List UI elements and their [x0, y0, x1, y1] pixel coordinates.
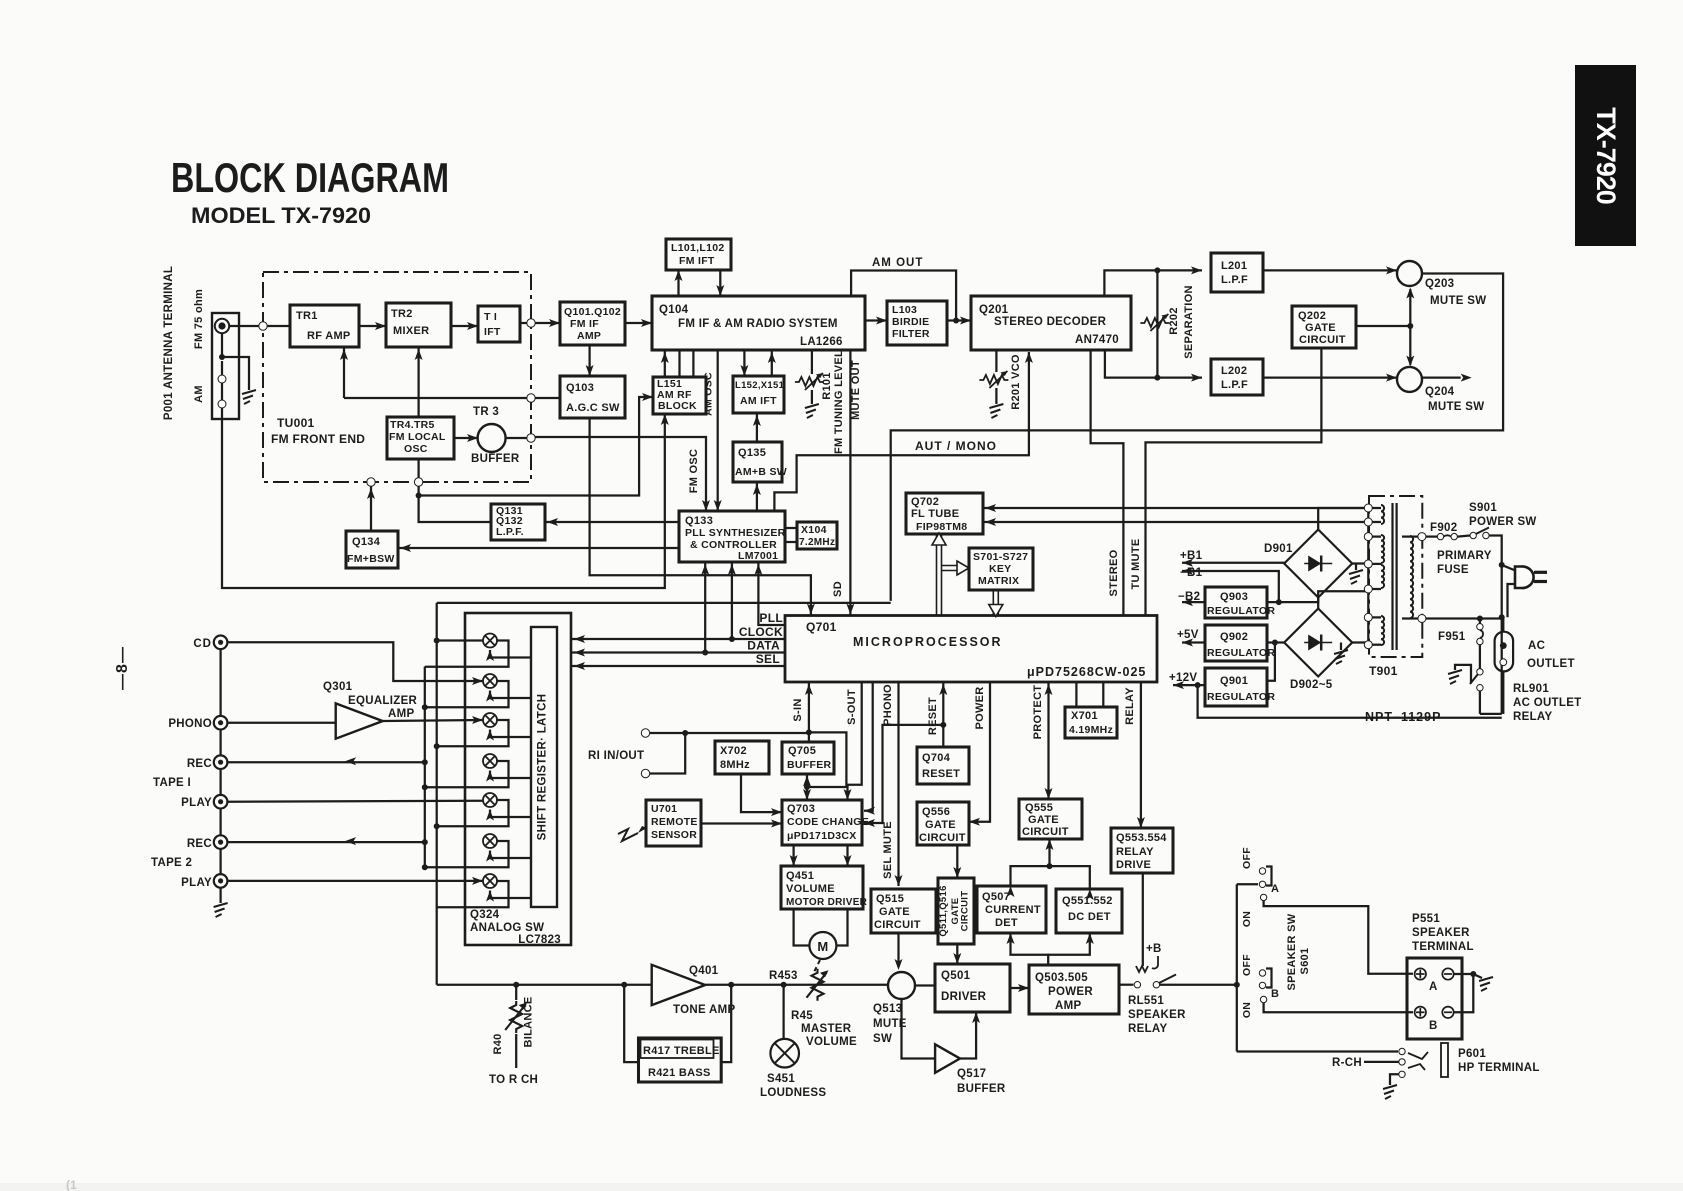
- wire RELAY to Q553: [1140, 682, 1142, 828]
- svg-text:7.2MHz: 7.2MHz: [799, 537, 835, 548]
- svg-text:RL901: RL901: [1513, 683, 1549, 695]
- pot R45 master volume: [807, 969, 829, 1001]
- svg-text:PHONO: PHONO: [882, 684, 894, 726]
- wire Q202 to mute switches: [1356, 325, 1410, 327]
- wire Q901 input from rail: [1267, 643, 1275, 681]
- relay contact RL901: [1477, 669, 1483, 675]
- ac outlet symbol: [1495, 632, 1514, 672]
- svg-text:L202: L202: [1221, 365, 1247, 377]
- svg-text:Q301: Q301: [323, 681, 353, 693]
- wire S-IN loop to Q703: [807, 732, 846, 787]
- loudness switch S451: [782, 985, 784, 1039]
- wire X702 to Q703: [741, 774, 782, 812]
- AM antenna contacts: [218, 375, 226, 383]
- svg-text:P551: P551: [1412, 913, 1440, 925]
- ground under jacks: [214, 903, 228, 917]
- hollow arrow key matrix to micro: [993, 590, 998, 616]
- svg-text:Q202: Q202: [1298, 310, 1326, 322]
- transformer T901 enclosure: [1369, 496, 1422, 657]
- svg-text:MICROPROCESSOR: MICROPROCESSOR: [853, 635, 1003, 649]
- mute switch circle Q204: [1397, 367, 1422, 392]
- svg-text:CIRCUIT: CIRCUIT: [874, 919, 921, 931]
- wire D902 right to tap: [1352, 641, 1368, 643]
- motor M circle: [809, 932, 836, 959]
- hp jack symbol: [1408, 1052, 1428, 1059]
- svg-text:TERMINAL: TERMINAL: [1412, 941, 1474, 953]
- svg-text:M: M: [817, 939, 828, 954]
- gate Q556 GATE CIRCUIT: [917, 802, 969, 845]
- svg-text:REGULATOR: REGULATOR: [1207, 605, 1275, 617]
- power switch S901: [1470, 532, 1476, 538]
- regulator Q901 REGULATOR: [1205, 668, 1267, 706]
- svg-text:TO R CH: TO R CH: [489, 1074, 538, 1086]
- svg-text:SEPARATION: SEPARATION: [1183, 285, 1195, 359]
- wire PLAY2 input: [227, 880, 483, 882]
- svg-text:4.19MHz: 4.19MHz: [1069, 724, 1113, 736]
- svg-text:Q503.505: Q503.505: [1035, 972, 1088, 984]
- gate Q555 GATE CIRCUIT: [1019, 799, 1082, 839]
- svg-text:MATRIX: MATRIX: [978, 575, 1019, 587]
- wire dash edge to Q101: [535, 322, 560, 324]
- wire Q703 to Q451 right stub: [846, 845, 848, 866]
- svg-text:GATE: GATE: [1305, 322, 1336, 334]
- svg-text:AMP: AMP: [1055, 1000, 1081, 1012]
- junction R453: [781, 982, 787, 988]
- svg-text:LA1266: LA1266: [800, 336, 843, 348]
- terminal A minus: [1442, 968, 1453, 979]
- ground at D901 tap: [1355, 564, 1357, 571]
- svg-text:SPEAKER SW: SPEAKER SW: [1286, 913, 1298, 990]
- svg-text:OFF: OFF: [1241, 847, 1253, 869]
- power amp Q503.505 POWER AMP: [1029, 965, 1119, 1014]
- svg-text:Q324: Q324: [470, 909, 500, 921]
- wire jack ground chain: [219, 649, 221, 716]
- ground at speaker terminal: [1479, 977, 1493, 991]
- svg-text:L201: L201: [1221, 260, 1247, 272]
- relay driver Q553.554 RELAY DRIVE: [1111, 828, 1173, 873]
- svg-text:8MHz: 8MHz: [720, 759, 750, 771]
- lpf L201 L.P.F: [1211, 253, 1263, 292]
- wire plug upper prong: [1502, 565, 1514, 570]
- svg-text:FUSE: FUSE: [1437, 564, 1469, 576]
- svg-text:CIRCUIT: CIRCUIT: [919, 832, 966, 844]
- wire L201 to Q203: [1263, 269, 1397, 271]
- svg-text:OSC: OSC: [404, 443, 428, 455]
- svg-text:S-IN: S-IN: [792, 698, 804, 721]
- svg-text:T I: T I: [484, 311, 497, 323]
- terminal B minus: [1442, 1007, 1453, 1018]
- wire DATA line: [572, 651, 785, 653]
- svg-text:OUTLET: OUTLET: [1527, 658, 1575, 670]
- fuse F902: [1437, 533, 1443, 539]
- svg-text:SEL MUTE: SEL MUTE: [882, 821, 894, 879]
- svg-text:LOUDNESS: LOUDNESS: [760, 1087, 826, 1099]
- svg-text:R-CH: R-CH: [1332, 1057, 1362, 1069]
- transformer primary winding: [1402, 535, 1410, 537]
- svg-text:RESET: RESET: [922, 768, 960, 780]
- wire Q133 to X104 stubs: [785, 527, 797, 529]
- bridge rectifier D902-5: [1284, 609, 1352, 677]
- svg-text:Q517: Q517: [957, 1068, 986, 1080]
- svg-text:FM FRONT END: FM FRONT END: [271, 432, 365, 446]
- wire bus from analog switch to rail: [437, 602, 891, 604]
- driver Q451 VOLUME MOTOR DRIVER: [781, 866, 863, 909]
- wire Q133 to Q134: [398, 547, 679, 549]
- bridge rectifier D901: [1284, 530, 1352, 598]
- junction circle on dash bottom for Q134: [367, 478, 375, 486]
- svg-text:Q133: Q133: [685, 515, 713, 527]
- svg-text:PLAY: PLAY: [181, 877, 212, 889]
- ground at antenna box: [242, 390, 256, 404]
- wire CLOCK line: [572, 638, 785, 640]
- svg-text:P601: P601: [1458, 1048, 1486, 1060]
- svg-text:RELAY: RELAY: [1124, 687, 1136, 725]
- svg-text:STEREO DECODER: STEREO DECODER: [994, 316, 1107, 328]
- svg-text:AMP: AMP: [388, 708, 414, 720]
- input jack TAPE1 PLAY: [214, 795, 228, 809]
- svg-text:R421 BASS: R421 BASS: [648, 1067, 711, 1079]
- svg-text:CD: CD: [193, 638, 212, 650]
- crystal X702 8MHz: [715, 741, 769, 774]
- amp triangle Q301 EQUALIZER AMP: [336, 703, 383, 738]
- relay contact RL551: [1134, 982, 1140, 988]
- wire osc to L151 left: [419, 397, 653, 496]
- junction R202 top: [1154, 267, 1160, 273]
- supply line to Q702 upper: [983, 507, 1368, 509]
- dc detector Q551.552 DC DET: [1056, 889, 1122, 933]
- switch Q135 AM+B SW: [733, 442, 782, 482]
- wire Q451 to motor: [794, 909, 810, 946]
- input jack CD: [214, 636, 228, 650]
- input jack PHONO: [214, 716, 228, 730]
- wire +12V to relay rail: [1198, 685, 1502, 718]
- switch row play1: [483, 793, 497, 807]
- wire detector network to Q555: [1011, 866, 1090, 889]
- wire T1 to dash edge junction: [520, 322, 531, 324]
- svg-text:DRIVER: DRIVER: [941, 991, 987, 1003]
- svg-text:+B: +B: [1146, 943, 1162, 955]
- wire Q135 to L152: [756, 413, 758, 442]
- svg-text:GATE: GATE: [879, 906, 910, 918]
- ac plug: [1515, 566, 1534, 588]
- svg-text:REGULATOR: REGULATOR: [1207, 691, 1275, 703]
- wire micro pin to Q703 right upper: [864, 682, 873, 811]
- wire power amp sense to detectors: [1011, 933, 1049, 965]
- svg-text:Q553.554: Q553.554: [1116, 832, 1167, 844]
- svg-text:CIRCUIT: CIRCUIT: [960, 891, 971, 932]
- svg-text:FM IF & AM RADIO SYSTEM: FM IF & AM RADIO SYSTEM: [678, 318, 838, 330]
- wire dash edge to Q103: [535, 397, 560, 399]
- wire PROTECT: [1047, 682, 1049, 799]
- crystal X104 7.2MHz: [797, 522, 837, 549]
- wire Q104 to L103: [865, 319, 887, 321]
- wire treble box to amp output: [721, 985, 731, 1062]
- svg-text:PLL SYNTHESIZER: PLL SYNTHESIZER: [685, 527, 786, 539]
- wire REC2 feed: [227, 841, 424, 843]
- svg-text:S-OUT: S-OUT: [846, 689, 858, 725]
- svg-text:SENSOR: SENSOR: [651, 829, 697, 841]
- svg-text:Q134: Q134: [352, 536, 381, 548]
- svg-text:SHIFT REGISTER· LATCH: SHIFT REGISTER· LATCH: [537, 694, 549, 841]
- block Q134 FM+B SW: [346, 531, 398, 568]
- svg-text:BLOCK DIAGRAM: BLOCK DIAGRAM: [171, 154, 449, 201]
- wire R202 vertical: [1156, 270, 1158, 377]
- svg-text:SPEAKER: SPEAKER: [1412, 927, 1470, 939]
- svg-text:TR 3: TR 3: [473, 406, 499, 418]
- svg-text:R40: R40: [492, 1033, 504, 1054]
- svg-text:Q511,Q516: Q511,Q516: [938, 885, 949, 936]
- svg-text:CURRENT: CURRENT: [985, 904, 1041, 916]
- svg-text:Q701: Q701: [806, 620, 837, 634]
- wire AM jack chain: [221, 361, 223, 375]
- switch row tuner: [483, 674, 497, 688]
- wire U701 to Q703: [701, 822, 782, 824]
- transistor block TR1 RF AMP: [290, 305, 359, 347]
- svg-text:AM+B SW: AM+B SW: [735, 466, 787, 478]
- wire TR2 to T1: [451, 325, 478, 327]
- svg-text:Q705: Q705: [788, 745, 816, 757]
- wire REC1 feed: [227, 761, 424, 763]
- ic Q104 FM IF and AM RADIO SYSTEM LA1266: [652, 296, 865, 350]
- svg-text:Q555: Q555: [1025, 802, 1053, 814]
- svg-text:Q901: Q901: [1220, 675, 1248, 687]
- wire F951 to relay contact: [1479, 645, 1481, 669]
- switch output hooks: [425, 641, 509, 667]
- dashed link motor to volume pot: [813, 960, 820, 974]
- wire transformer primary bottom line: [1426, 617, 1502, 619]
- reset block Q704 RESET: [917, 747, 969, 784]
- svg-text:AM OUT: AM OUT: [872, 257, 923, 269]
- wire Q553 to relay coil: [1142, 873, 1144, 966]
- regulator Q902 REGULATOR: [1205, 625, 1267, 661]
- switch row rec1: [483, 754, 497, 768]
- wire Q201 bottom to L202 line: [1105, 350, 1202, 378]
- wire speaker bus to HP terminal: [1237, 1050, 1398, 1052]
- svg-text:AN7470: AN7470: [1075, 334, 1119, 346]
- pll Q133 PLL SYNTHESIZER and CONTROLLER LM7001: [679, 511, 785, 562]
- keyboard S701-S727 KEY MATRIX: [969, 548, 1033, 590]
- shift register latch inner box: [531, 627, 557, 907]
- speaker switch B contacts: [1259, 970, 1265, 976]
- svg-text:DRIVE: DRIVE: [1116, 859, 1151, 871]
- scan edge band: [0, 1183, 1683, 1191]
- wire L202 to Q204: [1263, 376, 1397, 378]
- wire main audio bus to tone amp: [437, 984, 652, 986]
- svg-text:AUT / MONO: AUT / MONO: [915, 439, 997, 453]
- switch control stubs from latch: [490, 650, 531, 658]
- svg-text:L.P.F.: L.P.F.: [496, 526, 524, 538]
- svg-text:R453: R453: [769, 970, 798, 982]
- svg-text:VOLUME: VOLUME: [806, 1036, 857, 1048]
- svg-text:Q104: Q104: [659, 304, 689, 316]
- hp terminal contacts P601: [1399, 1048, 1405, 1054]
- svg-text:REGULATOR: REGULATOR: [1207, 647, 1275, 659]
- mute switch circle Q513: [888, 972, 915, 999]
- svg-text:A.G.C SW: A.G.C SW: [566, 402, 620, 414]
- svg-text:R202: R202: [1168, 307, 1180, 335]
- svg-text:RF AMP: RF AMP: [307, 330, 351, 342]
- antenna terminal box P001: [212, 313, 239, 419]
- wire AM antenna line to L151: [222, 408, 665, 588]
- wire PLL line: [758, 562, 785, 625]
- buffer Q705 BUFFER: [782, 742, 834, 774]
- wire +12V output: [1173, 684, 1205, 686]
- svg-text:GATE: GATE: [1028, 814, 1059, 826]
- svg-text:PRIMARY: PRIMARY: [1437, 550, 1492, 562]
- ic Q201 STEREO DECODER AN7470: [971, 296, 1131, 350]
- tone control box R417 TREBLE R421 BASS: [639, 1038, 722, 1082]
- switch row play2: [483, 874, 497, 888]
- wire terminal grounds: [1454, 973, 1474, 975]
- gate column Q511 Q516 GATE CIRCUIT: [938, 878, 974, 944]
- svg-text:Q103: Q103: [566, 382, 594, 394]
- svg-text:PHONO: PHONO: [168, 718, 212, 730]
- svg-text:S451: S451: [767, 1073, 795, 1085]
- hollow arrow branch to key matrix: [942, 566, 961, 571]
- wire Q201 top to L201 line: [1104, 270, 1202, 296]
- terminal B plus: [1415, 1007, 1426, 1018]
- svg-text:RESET: RESET: [927, 697, 939, 735]
- svg-text:SEL: SEL: [756, 652, 780, 666]
- input jack TAPE2 PLAY: [214, 874, 228, 888]
- svg-text:RELAY: RELAY: [1116, 846, 1154, 858]
- ground at RL901: [1448, 670, 1462, 684]
- svg-text:F951: F951: [1438, 631, 1466, 643]
- svg-text:CODE CHANGE: CODE CHANGE: [787, 816, 869, 828]
- svg-text:OFF: OFF: [1241, 954, 1253, 976]
- wire Q101 to Q104: [625, 322, 652, 324]
- gate Q515 GATE CIRCUIT: [871, 889, 936, 933]
- ic Q324 ANALOG SW LC7823 outer box: [465, 613, 571, 945]
- svg-text:L103: L103: [892, 304, 917, 316]
- ift L152,X151 AM IFT: [733, 376, 784, 413]
- svg-text:S701-S727: S701-S727: [973, 551, 1028, 563]
- wire PLAY1 input: [227, 801, 483, 802]
- amp triangle Q401 TONE AMP: [652, 965, 706, 1005]
- svg-text:SD: SD: [832, 581, 844, 597]
- wire plug lower prong jog: [1508, 584, 1515, 617]
- wire Q501 to power amp: [1010, 987, 1029, 989]
- svg-text:S901: S901: [1469, 502, 1497, 514]
- svg-text:GATE: GATE: [925, 819, 956, 831]
- wire -B2 regulator output: [1182, 601, 1205, 603]
- svg-text:FL TUBE: FL TUBE: [911, 508, 959, 520]
- svg-text:Q203: Q203: [1425, 278, 1454, 290]
- svg-text:TX-7920: TX-7920: [1591, 107, 1621, 204]
- display Q702 FL TUBE FIP98TM8: [906, 493, 983, 534]
- svg-text:D902~5: D902~5: [1290, 679, 1333, 691]
- transformer core: [1391, 503, 1393, 650]
- svg-text:MUTE SW: MUTE SW: [1430, 295, 1486, 307]
- svg-text:T901: T901: [1369, 664, 1398, 678]
- wire +B1 from bridge D901: [1182, 562, 1285, 564]
- svg-text:Q702: Q702: [911, 496, 939, 508]
- svg-text:Q101.Q102: Q101.Q102: [564, 306, 621, 318]
- wire FM jack to ground stub: [221, 333, 223, 357]
- wire L101 to Q104 stubs: [677, 270, 679, 296]
- svg-text:Q703: Q703: [787, 803, 815, 815]
- svg-text:RL551: RL551: [1128, 995, 1164, 1007]
- svg-text:A: A: [1429, 981, 1438, 993]
- svg-text:X702: X702: [720, 745, 747, 757]
- svg-text:R201 VCO: R201 VCO: [1010, 354, 1022, 410]
- svg-text:TAPE I: TAPE I: [153, 777, 191, 789]
- wire Q135 to Q133: [756, 482, 758, 511]
- svg-text:PROTECT: PROTECT: [1032, 685, 1044, 740]
- wire R-CH to hp: [1364, 1061, 1399, 1063]
- svg-text:FM LOCAL: FM LOCAL: [389, 431, 446, 443]
- wire to switch A: [1237, 883, 1258, 885]
- wire TR3 to dash edge: [506, 437, 531, 439]
- svg-text:D901: D901: [1264, 543, 1293, 555]
- wire +5V output: [1182, 641, 1205, 643]
- svg-text:BUFFER: BUFFER: [471, 453, 520, 465]
- pot R202 separation: [1140, 314, 1169, 331]
- wire D901 right to tap: [1352, 562, 1368, 564]
- svg-text:—8—: —8—: [114, 646, 131, 690]
- black index tab TX-7920: [1575, 65, 1636, 246]
- mute switch circle Q203: [1397, 261, 1422, 286]
- svg-text:POWER SW: POWER SW: [1469, 516, 1537, 528]
- svg-text:F902: F902: [1430, 522, 1457, 534]
- filter L103 BIRDIE FILTER: [887, 301, 947, 345]
- wire S-IN: [808, 682, 810, 742]
- wire outlet top feed: [1502, 619, 1504, 632]
- svg-text:REC: REC: [187, 838, 212, 850]
- svg-text:A: A: [1271, 883, 1279, 895]
- svg-text:BUFFER: BUFFER: [787, 759, 831, 771]
- speaker terminal box P551: [1407, 958, 1462, 1039]
- wire L103 to Q201: [947, 319, 971, 321]
- wire primary top to fuse F902: [1426, 535, 1437, 537]
- wire hp ground: [1390, 1074, 1399, 1085]
- connector RI IN/OUT: [641, 729, 649, 737]
- svg-text:BIRDIE: BIRDIE: [892, 316, 929, 328]
- svg-text:FM+BSW: FM+BSW: [347, 553, 395, 565]
- wire buffer line to FM OSC down: [535, 437, 706, 511]
- svg-text:MIXER: MIXER: [393, 325, 429, 337]
- lpf Q131 Q132 L.P.F.: [491, 504, 545, 540]
- svg-text:FM IFT: FM IFT: [679, 255, 715, 267]
- svg-text:Q135: Q135: [738, 447, 766, 459]
- wire RI to S-IN: [650, 732, 809, 734]
- svg-text:Q501: Q501: [941, 970, 971, 982]
- svg-text:CIRCUIT: CIRCUIT: [1299, 334, 1346, 346]
- relay coil link RL901: [1455, 665, 1471, 683]
- svg-text:VOLUME: VOLUME: [786, 883, 835, 895]
- switch row rec2: [483, 834, 497, 848]
- wire Q103 down to micro: [590, 418, 811, 616]
- svg-text:RI IN/OUT: RI IN/OUT: [588, 750, 644, 762]
- svg-text:X701: X701: [1071, 710, 1098, 722]
- input jack TAPE2 REC: [214, 835, 228, 849]
- svg-text:AC: AC: [1528, 640, 1545, 652]
- wire fuse to power switch: [1457, 536, 1470, 537]
- wire speaker bus vertical: [1236, 884, 1238, 1051]
- svg-text:AM OSC: AM OSC: [703, 372, 715, 416]
- ift L101,L102 FM IFT: [666, 239, 731, 270]
- svg-text:BILANCE: BILANCE: [523, 997, 535, 1048]
- svg-text:TONE AMP: TONE AMP: [673, 1004, 735, 1016]
- svg-text:Q903: Q903: [1220, 591, 1248, 603]
- svg-text:IFT: IFT: [484, 326, 501, 338]
- svg-text:STEREO: STEREO: [1108, 549, 1120, 596]
- svg-text:μPD75268CW-025: μPD75268CW-025: [1027, 665, 1146, 679]
- supply line to Q702 lower: [983, 521, 1368, 523]
- svg-text:Q515: Q515: [876, 893, 904, 905]
- svg-text:L101,L102: L101,L102: [671, 242, 724, 254]
- wire AGC feedback to TR1: [343, 347, 345, 398]
